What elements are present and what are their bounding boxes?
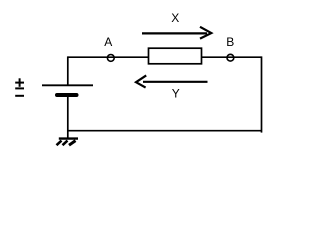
svg-text:B: B — [226, 35, 234, 49]
svg-text:X: X — [171, 11, 179, 25]
svg-text:Y: Y — [172, 87, 180, 101]
svg-text:A: A — [104, 35, 112, 49]
